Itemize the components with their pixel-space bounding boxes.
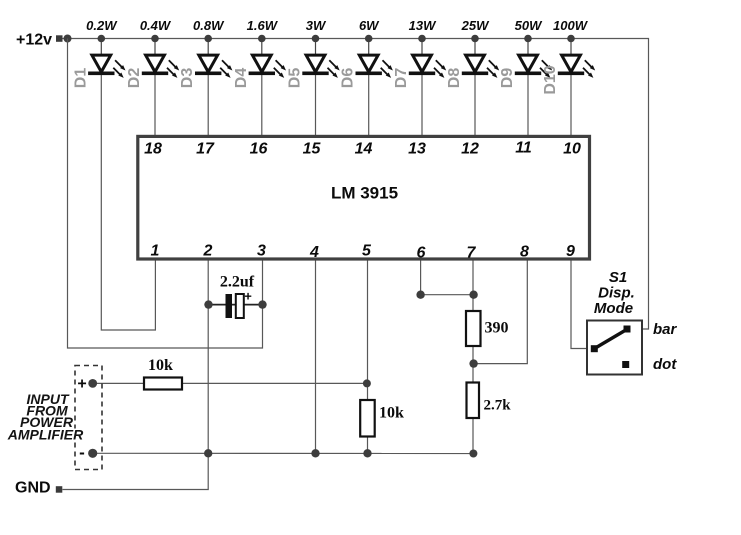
switch S1 common contact	[591, 345, 598, 352]
svg-text:390: 390	[485, 320, 509, 337]
svg-text:8: 8	[520, 244, 529, 261]
svg-text:17: 17	[196, 141, 215, 158]
svg-text:50W: 50W	[515, 18, 543, 33]
node rail dot D6	[365, 35, 373, 43]
svg-text:7: 7	[467, 245, 477, 262]
node plus terminal	[88, 379, 97, 388]
LED D9	[515, 39, 552, 78]
switch S1 lever	[595, 329, 628, 349]
svg-text:D4: D4	[233, 68, 250, 89]
svg-text:dot: dot	[653, 356, 677, 373]
wire pin 8 link from R3/R4 junction	[474, 261, 528, 364]
wire D6 cathode to pin 14	[368, 75, 370, 137]
capacitor C1 right plate	[236, 294, 244, 318]
svg-text:D1: D1	[72, 68, 89, 89]
LED D5	[302, 39, 339, 78]
node cap right dot	[258, 300, 266, 308]
node rail dot D4	[258, 35, 266, 43]
svg-text:+: +	[244, 289, 252, 304]
wire D7 cathode to pin 13	[421, 75, 423, 137]
node pin7 link dot	[469, 291, 477, 299]
wire top +12v supply rail with right-side drop to switch bar contact	[62, 39, 649, 330]
LED D8	[462, 39, 499, 78]
svg-text:0.4W: 0.4W	[140, 18, 172, 33]
svg-text:3: 3	[257, 243, 266, 260]
wire minus input rail	[93, 452, 474, 454]
wire pin 5 column through R2 divider	[367, 261, 369, 454]
svg-text:14: 14	[355, 141, 373, 158]
wire D8 cathode to pin 12	[474, 75, 476, 137]
svg-text:9: 9	[566, 243, 575, 260]
svg-text:0.2W: 0.2W	[86, 18, 118, 33]
node +12v junction dot	[64, 35, 72, 43]
capacitor C1 2.2uf left plate	[226, 294, 233, 318]
node rail dot D5	[312, 35, 320, 43]
node divider dot	[363, 379, 371, 387]
svg-text:1: 1	[151, 243, 160, 260]
svg-text:5: 5	[362, 243, 372, 260]
svg-text:0.8W: 0.8W	[193, 18, 225, 33]
wire pin 4 column down to minus rail	[315, 261, 317, 454]
wire LED D1 cathode down-around to pin 1	[101, 75, 155, 331]
svg-text:AMPLIFIER: AMPLIFIER	[7, 427, 84, 443]
svg-text:Disp.: Disp.	[598, 285, 635, 302]
svg-text:11: 11	[515, 140, 532, 157]
svg-text:+: +	[77, 376, 86, 393]
svg-text:25W: 25W	[461, 18, 490, 33]
svg-text:10k: 10k	[148, 357, 173, 374]
white patch where AMPLIFIER crosses dashed box	[2, 429, 90, 442]
svg-text:6: 6	[417, 245, 426, 262]
wire D2 cathode to pin 18	[154, 75, 156, 137]
svg-text:10: 10	[563, 141, 581, 158]
svg-text:13W: 13W	[409, 18, 437, 33]
GND terminal square	[56, 486, 63, 493]
node cap left dot	[204, 300, 212, 308]
svg-text:LM 3915: LM 3915	[331, 184, 398, 203]
LED D4	[249, 39, 286, 78]
node rail dot D2	[151, 35, 159, 43]
resistor R1 10k horizontal	[144, 378, 182, 390]
node minus terminal	[88, 449, 97, 458]
svg-text:D5: D5	[287, 68, 304, 89]
svg-text:D8: D8	[446, 68, 463, 89]
node R3 bottom dot	[469, 359, 477, 367]
svg-text:D9: D9	[499, 68, 516, 89]
svg-text:3W: 3W	[306, 18, 327, 33]
svg-text:12: 12	[461, 141, 479, 158]
svg-text:18: 18	[144, 141, 162, 158]
svg-text:GND: GND	[15, 480, 51, 497]
svg-text:2.7k: 2.7k	[484, 398, 512, 414]
LED D10	[558, 39, 595, 78]
wire pin 7 column through R3 and R4	[472, 261, 474, 454]
wire D3 cathode to pin 17	[207, 75, 209, 137]
switch S1 dot contact	[622, 361, 629, 368]
+12v terminal square	[56, 35, 63, 42]
node rail dot D10	[567, 35, 575, 43]
wire capacitor link pin2 to pin3	[209, 304, 263, 306]
LED D1	[88, 39, 125, 78]
svg-text:6W: 6W	[359, 18, 380, 33]
switch S1 bar contact	[624, 326, 631, 333]
svg-text:2.2uf: 2.2uf	[220, 274, 255, 291]
LED D2	[142, 39, 179, 78]
resistor R4 2.7k	[467, 383, 480, 419]
svg-text:D10: D10	[542, 65, 559, 94]
svg-text:S1: S1	[609, 269, 627, 286]
node rail dot D9	[524, 35, 532, 43]
wire D5 cathode to pin 15	[315, 75, 317, 137]
svg-text:D7: D7	[393, 68, 410, 89]
wire pin 2 column down to ground rail and GND terminal	[63, 261, 209, 490]
svg-text:1.6W: 1.6W	[247, 18, 279, 33]
wire D4 cathode to pin 16	[261, 75, 263, 137]
svg-text:100W: 100W	[553, 18, 589, 33]
wire +12v drop to pin 3 via capacitor node	[68, 39, 263, 349]
node rail dot D8	[471, 35, 479, 43]
resistor R3 390	[466, 311, 481, 346]
LED D6	[356, 39, 393, 78]
node pin6 dot	[416, 291, 424, 299]
IC U1 LM3915 body	[138, 136, 590, 259]
svg-text:4: 4	[309, 244, 319, 261]
svg-text:D3: D3	[179, 68, 196, 89]
svg-text:13: 13	[408, 141, 426, 158]
svg-text:+12v: +12v	[16, 32, 52, 49]
node minus rail dot R2	[363, 449, 371, 457]
wire plus input line	[93, 382, 367, 384]
svg-text:10k: 10k	[379, 405, 404, 422]
svg-text:2: 2	[203, 243, 213, 260]
switch S1 box	[587, 321, 642, 375]
wire D10 cathode to pin 10	[570, 75, 572, 137]
node minus rail dot pin4	[311, 449, 319, 457]
wire D9 cathode to pin 11	[527, 75, 529, 137]
svg-text:15: 15	[303, 141, 322, 158]
node rail dot D1	[98, 35, 106, 43]
svg-text:16: 16	[250, 141, 268, 158]
wire pin 6 to pin 7 link	[421, 261, 474, 295]
wire pin 9 to switch common	[571, 261, 591, 349]
svg-text:Mode: Mode	[594, 300, 633, 317]
node rail dot D3	[204, 35, 212, 43]
resistor R2 10k vertical	[360, 400, 375, 437]
node minus rail dot pin2	[204, 449, 212, 457]
node rail dot D7	[418, 35, 426, 43]
svg-text:-: -	[79, 443, 85, 462]
svg-text:bar: bar	[653, 321, 678, 338]
input connector dashed box	[75, 366, 102, 470]
svg-text:D6: D6	[340, 68, 357, 89]
LED D7	[409, 39, 446, 78]
node minus rail dot R4	[469, 450, 477, 458]
svg-text:D2: D2	[126, 68, 143, 89]
LED D3	[195, 39, 232, 78]
